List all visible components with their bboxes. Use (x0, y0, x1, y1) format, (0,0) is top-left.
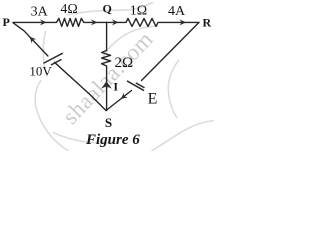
svg-text:shaalaa.com: shaalaa.com (58, 26, 158, 129)
svg-text:S: S (105, 115, 112, 130)
svg-text:Figure 6: Figure 6 (85, 132, 140, 148)
svg-text:4A: 4A (168, 4, 186, 19)
svg-text:R: R (203, 15, 212, 29)
svg-text:Q: Q (103, 2, 112, 16)
svg-text:4Ω: 4Ω (60, 2, 77, 17)
svg-text:2Ω: 2Ω (115, 55, 134, 71)
svg-text:3A: 3A (31, 5, 49, 20)
svg-text:I: I (113, 79, 118, 93)
svg-text:10V: 10V (29, 63, 52, 78)
svg-text:1Ω: 1Ω (130, 3, 147, 18)
svg-text:E: E (148, 91, 158, 108)
svg-text:P: P (3, 15, 10, 29)
